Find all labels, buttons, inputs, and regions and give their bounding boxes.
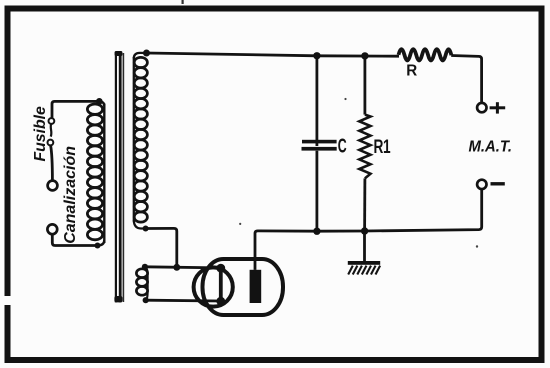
svg-text:Canalización: Canalización (62, 146, 79, 244)
svg-text:M.A.T.: M.A.T. (469, 138, 513, 156)
svg-text:Fusible: Fusible (32, 106, 49, 162)
svg-text:R1: R1 (374, 136, 391, 158)
svg-text:C: C (338, 134, 347, 157)
svg-text:R: R (406, 62, 417, 79)
